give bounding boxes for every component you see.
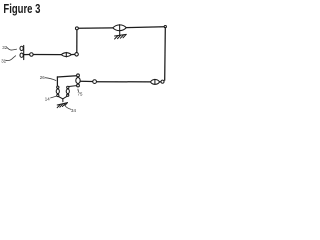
ground 34 (earth, bottom) [57, 103, 67, 108]
wire node E to bottom element [160, 81, 161, 83]
wire cluster top [57, 76, 76, 77]
wire node F to winding 75 tap [80, 80, 92, 82]
wire node C to top element [79, 27, 113, 29]
ground (earth, top) [115, 34, 127, 39]
winding 75 top ring [77, 74, 80, 77]
svg-text:14: 14 [45, 97, 50, 102]
wire top element to node D [126, 26, 164, 29]
transducer 31/32 electrode plate [23, 45, 25, 59]
winding 14 bottom ring [57, 94, 59, 96]
wire node B up to node C [76, 30, 78, 52]
node E (terminal ring, bottom-right) [161, 80, 164, 83]
bottom coupling element (lens) [150, 79, 159, 84]
ground stem (top) [119, 31, 121, 35]
coupling element (lens) on middle wire [61, 53, 71, 57]
wire V left to ground [58, 97, 62, 99]
wire cluster left vertical [56, 77, 58, 86]
element crossbar [65, 52, 67, 57]
leader 34 [65, 105, 71, 109]
ground stem (bottom) [62, 99, 64, 102]
leader 32 [7, 47, 17, 50]
svg-text:34: 34 [71, 108, 76, 113]
wire V right to ground [63, 96, 67, 99]
leader 75 [77, 89, 80, 92]
svg-text:32: 32 [2, 45, 7, 50]
leader 26 [45, 78, 56, 81]
wire right winding to winding 75 bottom [69, 85, 77, 88]
node A (terminal ring) [30, 53, 34, 57]
winding 14 body [56, 89, 59, 94]
top coupling element (lens) [113, 25, 127, 31]
svg-text:26: 26 [40, 75, 45, 80]
node D (terminal ring, top-right corner) [164, 26, 166, 28]
svg-text:Figure 3: Figure 3 [3, 2, 40, 16]
leader 14 [50, 96, 56, 98]
winding 75 body [76, 77, 80, 84]
transducer element 31 (lower oval) [20, 53, 23, 57]
winding 14 top ring [57, 86, 59, 88]
node F (terminal ring) [93, 80, 97, 84]
top element crossbar [119, 25, 121, 31]
winding (right) bottom ring [67, 94, 69, 96]
wire bottom element to node F [97, 81, 150, 83]
wire node A to element 26 [34, 54, 62, 56]
svg-text:75: 75 [78, 91, 83, 96]
leader 31 [5, 56, 16, 61]
winding 75 bottom ring [77, 84, 80, 87]
winding (right) body [66, 89, 69, 94]
wire element to node B [71, 53, 74, 55]
node B (terminal ring) [75, 53, 79, 57]
transducer element 32 (upper oval) [20, 46, 23, 50]
svg-text:31: 31 [1, 59, 6, 64]
node C (terminal ring, top-left corner) [75, 27, 78, 30]
winding (right) top ring [67, 86, 69, 88]
wire transducer to node A [24, 54, 29, 56]
wire right rail down [164, 28, 167, 80]
bottom element crossbar [154, 79, 156, 84]
